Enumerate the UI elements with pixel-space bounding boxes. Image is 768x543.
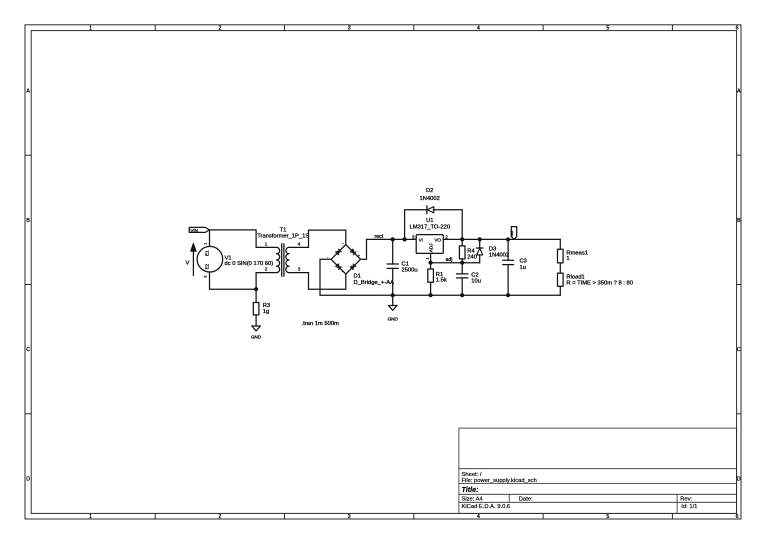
ground GND2 — [388, 306, 399, 322]
junction R4 bottom / adj — [461, 261, 464, 264]
global label out (rotated) — [509, 227, 517, 240]
capacitor C3 — [503, 239, 527, 295]
svg-text:VO: VO — [434, 238, 441, 243]
svg-text:.tran 1m 500m: .tran 1m 500m — [302, 321, 340, 327]
svg-text:1N4002: 1N4002 — [420, 196, 440, 202]
svg-text:VIN: VIN — [190, 228, 198, 233]
adj wire — [431, 262, 480, 264]
svg-text:D2: D2 — [426, 188, 433, 194]
junction D2/R4 top — [461, 238, 464, 241]
resistor R4 — [459, 239, 477, 262]
svg-text:2: 2 — [445, 234, 448, 239]
svg-text:1: 1 — [89, 26, 92, 32]
transformer T1 — [256, 228, 309, 277]
top rail wire right of U1 — [443, 238, 560, 240]
svg-text:Transformer_1P_1S: Transformer_1P_1S — [257, 233, 309, 239]
svg-text:1u: 1u — [520, 265, 526, 271]
svg-text:10u: 10u — [471, 279, 481, 285]
wire T1 pin2 drop — [255, 273, 257, 290]
frame row letters right — [737, 89, 741, 483]
svg-text:D3: D3 — [489, 246, 496, 252]
svg-text:out: out — [509, 230, 514, 236]
svg-text:C3: C3 — [520, 259, 527, 265]
svg-text:A: A — [26, 89, 30, 95]
wire VIN to T1 pin1 — [209, 230, 256, 248]
svg-text:2: 2 — [218, 514, 221, 520]
svg-text:D: D — [26, 477, 30, 483]
title block texts — [462, 472, 698, 510]
svg-text:5: 5 — [606, 514, 609, 520]
voltage source V1 — [197, 242, 273, 278]
svg-text:1N4002: 1N4002 — [489, 252, 509, 258]
svg-text:ADJ: ADJ — [429, 244, 434, 253]
wire T1 pin4 to bridge top — [309, 230, 346, 247]
junction C3 bottom — [507, 294, 510, 297]
svg-text:V: V — [186, 260, 190, 266]
svg-text:KiCad E.D.A. 9.0.6: KiCad E.D.A. 9.0.6 — [462, 504, 511, 510]
svg-text:R4: R4 — [467, 248, 475, 254]
svg-text:6: 6 — [736, 514, 739, 520]
svg-text:4: 4 — [477, 514, 480, 520]
svg-text:R = TIME > 350m ? 8 : 80: R = TIME > 350m ? 8 : 80 — [566, 280, 633, 286]
svg-text:LM317_TO-220: LM317_TO-220 — [410, 224, 451, 230]
svg-text:Date:: Date: — [519, 496, 533, 502]
svg-text:6: 6 — [736, 26, 739, 32]
wire to GND2 — [392, 295, 394, 305]
svg-text:VI: VI — [419, 238, 423, 243]
svg-text:B: B — [26, 218, 30, 224]
svg-text:2500u: 2500u — [402, 268, 418, 274]
junction D2 left riser — [403, 238, 406, 241]
wire U1 ADJ down — [430, 253, 432, 262]
frame column numbers bottom — [89, 514, 739, 520]
wire T1 pin3 to bridge bottom — [309, 273, 346, 290]
svg-text:Id: 1/1: Id: 1/1 — [681, 504, 697, 510]
svg-text:5: 5 — [606, 26, 609, 32]
svg-text:1g: 1g — [263, 309, 269, 315]
svg-text:1: 1 — [89, 514, 92, 520]
diode D2 bypass — [405, 188, 463, 239]
svg-text:2: 2 — [218, 26, 221, 32]
svg-text:Size: A4: Size: A4 — [462, 496, 484, 502]
wire primary bottom — [210, 288, 257, 290]
junction C2 bottom — [461, 294, 464, 297]
svg-text:1.5k: 1.5k — [436, 278, 447, 284]
resistor Rload1 — [558, 273, 633, 286]
svg-text:Rload1: Rload1 — [566, 274, 584, 280]
svg-text:3: 3 — [348, 26, 351, 32]
frame column numbers top — [89, 26, 739, 32]
top rail wire left of U1 — [367, 238, 417, 240]
svg-text:C: C — [737, 347, 741, 353]
junction C3 top — [507, 238, 510, 241]
svg-text:3: 3 — [348, 514, 351, 520]
svg-text:D_Bridge_+-AA: D_Bridge_+-AA — [354, 280, 395, 286]
junction bottom rail / C1 / GND — [391, 294, 394, 297]
svg-text:adj: adj — [446, 257, 453, 263]
wire R3 to GND — [255, 315, 257, 326]
wire between Rmeas1 and Rload1 — [559, 263, 561, 273]
svg-text:Title:: Title: — [462, 485, 480, 494]
bridge rectifier D1 — [327, 241, 394, 286]
wire bridge right up — [361, 239, 367, 259]
svg-text:4: 4 — [298, 241, 301, 246]
junction primary-bottom / R3 — [255, 288, 258, 291]
svg-text:D1: D1 — [354, 274, 361, 280]
svg-text:A: A — [737, 89, 741, 95]
svg-text:E1: E1 — [204, 250, 209, 256]
wire Rload1 bottom to rail — [559, 286, 561, 295]
resistor Rmeas1 — [558, 239, 588, 263]
wire V1 plus — [209, 230, 211, 247]
title block — [459, 428, 737, 513]
svg-text:File: power_supply.kicad_sch: File: power_supply.kicad_sch — [462, 478, 537, 484]
svg-text:3: 3 — [412, 234, 415, 239]
svg-text:240: 240 — [467, 254, 477, 260]
svg-text:Rev:: Rev: — [680, 496, 692, 502]
ground GND1 — [251, 326, 262, 339]
junction D3 top — [478, 238, 481, 241]
frame row letters left — [26, 89, 30, 483]
svg-text:3: 3 — [298, 267, 301, 272]
regulator U1 LM317 — [410, 218, 451, 260]
capacitor C2 — [457, 263, 481, 296]
junction ADJ node — [429, 261, 432, 264]
resistor R3 — [253, 303, 270, 315]
wire bridge left to bottom rail — [320, 259, 331, 295]
svg-text:D: D — [737, 477, 741, 483]
svg-text:4: 4 — [477, 26, 480, 32]
bottom rail wire — [320, 294, 560, 296]
svg-text:1: 1 — [265, 241, 268, 246]
svg-text:1: 1 — [566, 256, 569, 262]
wire V1 minus — [209, 272, 211, 289]
svg-text:GND: GND — [388, 316, 399, 321]
svg-text:C2: C2 — [471, 272, 478, 278]
svg-text:GND: GND — [251, 334, 262, 339]
resistor R1 — [428, 263, 447, 296]
diode D3 — [477, 239, 510, 262]
wire to R3 — [255, 289, 257, 302]
global label VIN — [189, 227, 209, 233]
svg-text:U1: U1 — [426, 218, 433, 224]
capacitor C1 — [387, 239, 418, 295]
current probe arrow V — [186, 243, 197, 275]
junction R1 bottom — [429, 294, 432, 297]
svg-text:C: C — [26, 347, 30, 353]
svg-text:2: 2 — [265, 267, 268, 272]
junction C1 top — [391, 238, 394, 241]
svg-text:E2: E2 — [204, 263, 209, 269]
svg-text:B: B — [737, 218, 741, 224]
svg-text:rect: rect — [375, 234, 384, 240]
